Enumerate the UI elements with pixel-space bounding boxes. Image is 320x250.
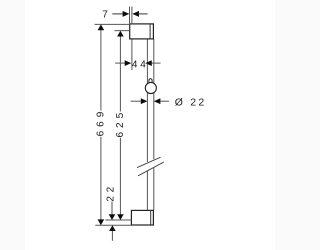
svg-text:Ø 22: Ø 22 xyxy=(175,97,207,109)
dim 669 line xyxy=(100,30,102,221)
dim 44 left arrow xyxy=(125,60,132,66)
dim 44 right arrow xyxy=(145,60,152,66)
dim 625 bottom arrow xyxy=(117,214,124,220)
dim diameter 22 left tail xyxy=(131,100,141,102)
dim diameter 22 right tail xyxy=(160,100,169,102)
dim 7 left arrow xyxy=(112,13,123,15)
wall bar rail (left line) xyxy=(146,39,148,211)
dim 22 line upper xyxy=(111,202,113,215)
break symbol diagonal 2 xyxy=(138,162,164,176)
extension line (625 start) xyxy=(114,30,129,32)
white drawing area xyxy=(25,0,275,250)
svg-text:44: 44 xyxy=(132,59,149,70)
dim 22 lower tail xyxy=(111,231,113,241)
slider circle xyxy=(145,82,156,93)
svg-text:22: 22 xyxy=(105,183,116,202)
dim 7 left extension line xyxy=(129,7,131,24)
svg-text:7: 7 xyxy=(102,10,108,21)
dim diameter 22 right arrow xyxy=(154,98,161,104)
dim 44 right tail xyxy=(152,62,161,64)
extension line bottom lower (669 end) xyxy=(95,224,131,226)
dim 7 right extension / wall line xyxy=(131,7,133,71)
svg-text:625: 625 xyxy=(115,109,126,138)
wall bar rail (right line) xyxy=(153,39,155,211)
bottom bracket inner cap line xyxy=(150,210,152,225)
top bracket inner cap line xyxy=(149,24,151,39)
slider knob xyxy=(149,79,152,84)
dim diameter 22 left arrow xyxy=(141,98,148,104)
dim 44 left tail xyxy=(115,62,125,64)
dim 7 right arrow xyxy=(132,11,139,17)
bottom bracket xyxy=(131,210,153,225)
dim 625 top arrow xyxy=(117,31,124,37)
extension line top (669, bracket top) xyxy=(95,23,130,25)
dim 669 top arrow xyxy=(98,24,105,30)
svg-text:669: 669 xyxy=(95,108,106,137)
dim 625 line xyxy=(119,36,121,215)
extension line bottom upper (625/22 end) xyxy=(105,219,131,221)
dim 22 bottom arrow (outside, pointing up) xyxy=(109,225,116,231)
dim 669 bottom arrow xyxy=(98,219,105,225)
break symbol diagonal 1 xyxy=(137,157,161,167)
top bracket xyxy=(130,24,154,39)
dim 22 top arrow (outside, pointing down) xyxy=(109,214,116,220)
